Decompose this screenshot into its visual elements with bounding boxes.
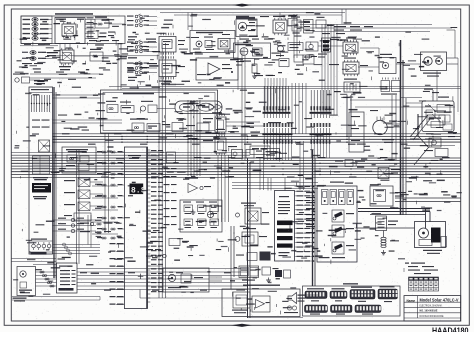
aircon comp relays: [381, 78, 400, 95]
rotating beacon option box: [190, 31, 235, 53]
glow plug relay: [427, 111, 446, 126]
svg-text:NO. 190-00019E: NO. 190-00019E: [420, 309, 438, 313]
title block: [404, 296, 461, 321]
wiper relay K5: [260, 16, 287, 35]
safety relay: [335, 160, 365, 167]
harness connector CN1: [263, 86, 291, 118]
breaker B1: [106, 101, 118, 113]
LCD display 8.8: [130, 184, 146, 196]
engine harness verticals: [350, 95, 400, 160]
bottom tie wires: [148, 226, 415, 318]
svg-text:ELECTRICAL DIAGRAM: ELECTRICAL DIAGRAM: [420, 304, 442, 308]
left feeder wires: [53, 44, 160, 124]
relay board upper cells: [317, 182, 357, 263]
harness riser group C: [218, 155, 229, 222]
harness riser group B: [188, 100, 200, 176]
left sensor rows: [146, 239, 189, 258]
limit switch pair: [236, 252, 271, 261]
ground G2: [381, 250, 386, 255]
relay pilot RP: [13, 74, 40, 84]
voltage converter: [57, 263, 78, 293]
switch column rows: [127, 14, 157, 81]
work lamp relay K2: [47, 48, 74, 70]
battery BAT1: [376, 216, 399, 231]
horn relay K4: [147, 56, 185, 84]
upper tie wires: [109, 9, 461, 160]
alternator: [370, 110, 394, 143]
4-lamp assembly option box: [21, 13, 125, 43]
relay to panel wires: [92, 184, 118, 234]
connector legend box: [303, 283, 401, 316]
bottom left feeder wires: [12, 259, 57, 265]
panel riser wires: [105, 133, 109, 233]
bus junctions: [53, 136, 434, 175]
bottom fold mark: [231, 324, 252, 327]
top border risers: [265, 78, 306, 134]
controller feed wires: [232, 178, 318, 191]
horn assembly: [421, 52, 459, 77]
svg-text:HAAD4180: HAAD4180: [432, 325, 469, 332]
travel relay row: [239, 266, 291, 282]
controller CPU box: [275, 191, 295, 262]
bus wire labels: [62, 133, 450, 291]
buzzer BZ1: [228, 146, 243, 159]
top rail wires: [160, 13, 452, 32]
breaker B2: [120, 102, 134, 113]
hour meter: [13, 267, 36, 302]
wiper motor cross circle: [191, 206, 222, 218]
lower right tie wires: [268, 268, 404, 337]
flasher unit FU2: [203, 135, 226, 156]
relay module dark: [318, 38, 331, 58]
fuse box label: [34, 80, 48, 84]
start relay K8: [378, 168, 400, 179]
seat switch rows: [53, 218, 97, 233]
panel side box upper: [167, 152, 176, 163]
resistor R1: [252, 59, 257, 74]
ground G1: [252, 74, 257, 79]
spare fuses: [29, 239, 53, 253]
fuel heater: [429, 134, 441, 148]
pedal breaker: [130, 119, 209, 133]
pressure switch cluster: [279, 42, 318, 67]
wiring notes: [405, 263, 438, 275]
top fold mark: [232, 4, 252, 7]
panel pin labels right: [151, 150, 163, 292]
fuel pump option box: [234, 43, 271, 62]
switch bank box: [180, 200, 222, 232]
fuse rating table: [33, 156, 50, 174]
starter switch box: [422, 97, 454, 132]
battery B+ wires: [358, 198, 461, 228]
ground G3: [288, 222, 293, 231]
panel lower harness rows: [110, 243, 125, 305]
instrument panel block: [124, 147, 147, 309]
fusible link box: [62, 147, 96, 173]
lamp feed wires: [85, 17, 95, 38]
head lamp switch: [85, 17, 125, 42]
wiper relay box: [236, 203, 270, 225]
starter switch internal wiring: [418, 89, 439, 149]
engine sensor box: [349, 112, 364, 152]
key switch: [140, 101, 222, 114]
top border station label: [236, 17, 255, 20]
heater relay K6: [330, 38, 358, 56]
dc-dc converter: [246, 149, 280, 159]
diagonal harness runs: [410, 115, 431, 165]
engine harness labels: [424, 132, 457, 157]
harness connector CN5: [310, 123, 332, 158]
harness riser group A: [159, 43, 165, 298]
lamp load labels: [306, 218, 315, 225]
cigar lighter row: [80, 222, 112, 233]
accessory wires upper left: [30, 72, 100, 80]
diode group D1: [196, 104, 222, 110]
junction box JB: [250, 146, 270, 155]
travel alarm option box: [222, 285, 300, 317]
panel cross marker: [138, 274, 144, 279]
battery relay box: [370, 186, 406, 206]
relay board diagonal relays: [319, 210, 355, 258]
svg-text:DOOSAN INFRACORE: DOOSAN INFRACORE: [420, 314, 444, 318]
controller pin rows: [295, 186, 315, 262]
harness connector CN4: [310, 90, 332, 118]
fuse legend labels: [32, 177, 51, 199]
cab harness labels: [322, 26, 373, 34]
heater unit: [344, 79, 360, 93]
wiper motor box: [236, 16, 257, 37]
interconnect rows upper left: [20, 44, 58, 46]
hour sensor circle: [305, 55, 317, 59]
relay column RC1: [64, 178, 103, 221]
battery coil lead: [381, 231, 386, 248]
wire gauge table: [409, 277, 439, 291]
panel connector rows left: [97, 151, 124, 239]
connector icons row 1: [305, 286, 398, 302]
lower harness bundle: [12, 269, 247, 301]
lamp switch S2: [74, 49, 122, 61]
spare fuse wires: [31, 215, 101, 255]
starter feed riser: [401, 40, 407, 215]
alarm speaker: [284, 293, 307, 314]
main supply bus: [54, 87, 56, 278]
lamps L1-L5: [23, 18, 53, 41]
svg-text:Name: Name: [407, 299, 416, 303]
svg-text:Model Solar 470LC-V: Model Solar 470LC-V: [420, 298, 459, 303]
fuse box F1-F10: [29, 87, 53, 254]
battery feed riser: [313, 150, 316, 286]
starter motor assembly: [415, 222, 447, 254]
relay board left pin labels: [306, 192, 315, 233]
connector icons row 2: [305, 305, 382, 315]
extra feeder verticals: [60, 14, 297, 264]
beacon amplifier: [196, 58, 238, 80]
flasher unit FU1: [203, 114, 226, 135]
side label rows: [164, 168, 177, 225]
flasher relay K3: [146, 33, 185, 55]
fuel sender: [276, 46, 284, 58]
pilot buzzer triangle: [185, 178, 211, 193]
condenser box: [379, 54, 405, 74]
right mid extra wires: [355, 71, 461, 146]
main harness bus center: [12, 153, 461, 178]
lamp relay K1: [55, 18, 85, 44]
panel pin comb: [148, 150, 151, 302]
main harness bus upper: [53, 134, 461, 142]
washer switch: [291, 17, 313, 34]
mid extra wires: [148, 122, 304, 190]
harness connector CN2: [263, 122, 293, 160]
aircon relay K7: [329, 58, 368, 77]
right harness risers: [322, 24, 351, 137]
right edge wires: [447, 30, 459, 112]
work lamps group: [22, 51, 57, 65]
breaker and key option panel: [101, 90, 218, 133]
alarm amplifier: [252, 296, 270, 312]
fuse box relay: [39, 140, 50, 152]
main feed riser: [248, 158, 251, 318]
top middle extra components: [236, 16, 326, 77]
wiper washer pump box: [163, 268, 209, 292]
drawing number HAAD4180: [432, 325, 469, 335]
alarm oscillator: [232, 292, 250, 313]
relay cluster RC2: [235, 228, 267, 246]
